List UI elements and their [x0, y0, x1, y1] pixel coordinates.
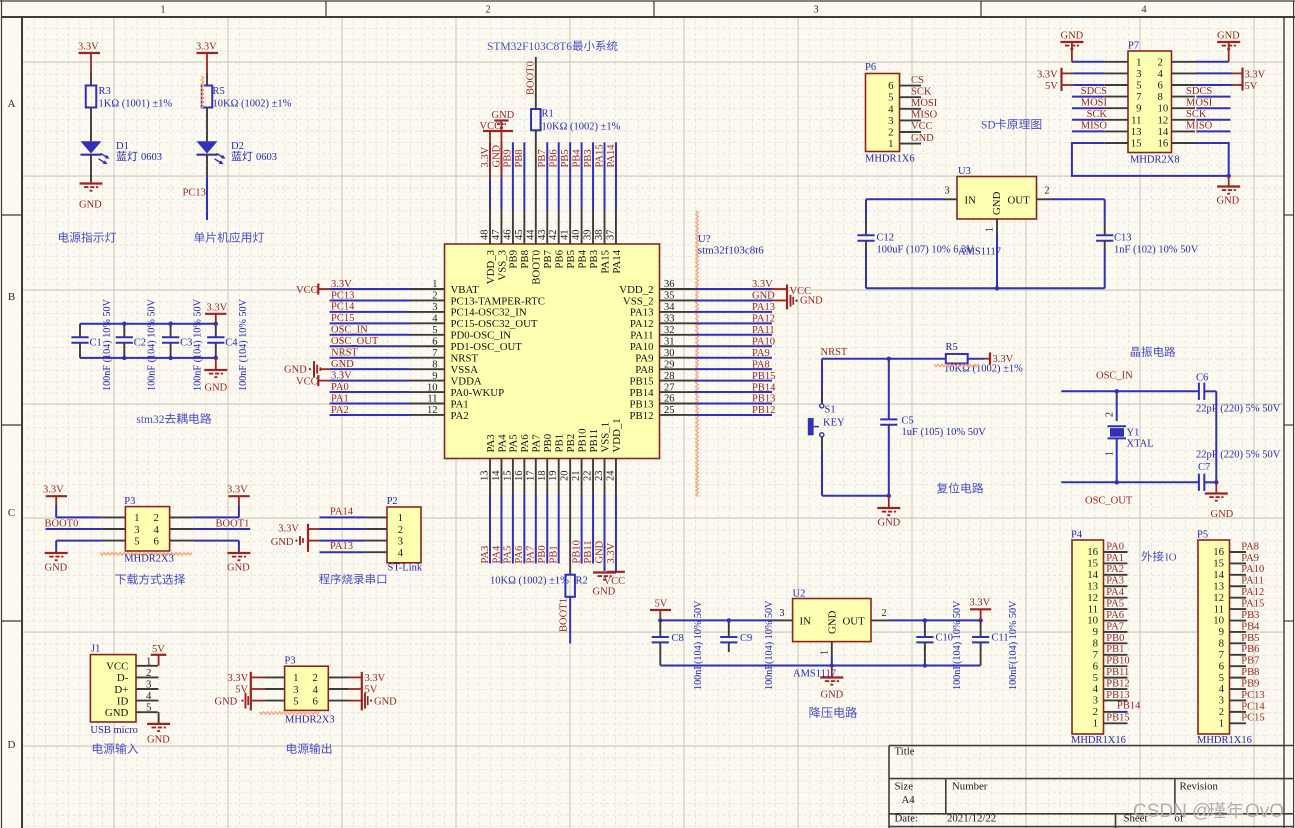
mcu top pin 37 PA14 [615, 210, 617, 245]
svg-text:PA13: PA13 [330, 541, 353, 552]
wire net MISO (right) [1196, 130, 1230, 132]
svg-text:OvO: OvO [1245, 801, 1284, 822]
svg-text:J1: J1 [91, 644, 100, 655]
capacitor C12 [865, 199, 867, 222]
svg-text:PB12: PB12 [752, 405, 775, 416]
svg-text:D: D [8, 739, 16, 751]
svg-text:VDD_3: VDD_3 [485, 250, 497, 284]
mcu right pin 31 PA10 [660, 345, 695, 347]
wire net 3.3V [330, 380, 410, 382]
mcu bottom pin 15 PA5 [512, 459, 514, 495]
wire net PA1 [330, 403, 410, 405]
svg-text:PA1: PA1 [1106, 553, 1124, 564]
mcu right pin 33 PA12 [660, 322, 695, 324]
svg-text:PB6: PB6 [1241, 644, 1259, 655]
svg-text:10KΩ (1002) ±1%: 10KΩ (1002) ±1% [542, 122, 621, 133]
svg-text:PB9: PB9 [503, 149, 514, 167]
junction [214, 322, 218, 326]
mcu bottom pin 23 VSS_1 [604, 459, 606, 495]
value label D2 [232, 151, 253, 161]
wire net PA11 [695, 334, 773, 336]
svg-text:R2: R2 [576, 576, 588, 587]
capacitor C10 [924, 620, 926, 636]
junction [995, 286, 999, 290]
wire [238, 506, 240, 517]
svg-text:XTAL: XTAL [1127, 439, 1154, 450]
svg-text:PA0: PA0 [331, 382, 349, 393]
mcu left pin 9 VDDA [410, 380, 445, 382]
svg-text:MOSI: MOSI [911, 98, 938, 109]
svg-text:CS: CS [911, 75, 924, 86]
svg-text:ID: ID [117, 695, 129, 707]
svg-text:1: 1 [432, 279, 437, 290]
wire [1116, 711, 1128, 713]
svg-text:5: 5 [1219, 672, 1224, 684]
wire net 3.3V [489, 142, 491, 209]
svg-text:2: 2 [485, 5, 490, 16]
svg-text:2: 2 [888, 127, 893, 139]
svg-text:GND: GND [821, 690, 844, 701]
regulator U2 AMS1117 [779, 619, 793, 621]
capacitor C13 [1104, 199, 1106, 222]
svg-text:PA8: PA8 [1241, 541, 1259, 552]
svg-text:GND: GND [205, 383, 228, 394]
svg-text:12: 12 [1158, 114, 1169, 126]
svg-text:GND: GND [594, 540, 605, 563]
wire net PC13 [330, 299, 410, 301]
svg-text:stm32f103c8t6: stm32f103c8t6 [698, 245, 764, 257]
svg-text:Number: Number [952, 781, 988, 793]
svg-text:PB14: PB14 [752, 382, 776, 393]
svg-text:PA14: PA14 [330, 506, 354, 517]
svg-text:9: 9 [1219, 626, 1224, 638]
ground GND (P7 pin2) [1217, 41, 1240, 43]
svg-text:30: 30 [664, 348, 675, 359]
svg-text:4: 4 [146, 690, 152, 702]
svg-text:GND: GND [45, 563, 68, 574]
power port VCC (pin 36) [772, 288, 787, 290]
wire net MOSI (right) [1196, 107, 1230, 109]
header P5 MHDR1X16 [1198, 540, 1230, 734]
svg-text:37: 37 [605, 230, 616, 241]
ground GND (crystal) [1215, 482, 1217, 492]
svg-text:1: 1 [1105, 451, 1116, 456]
svg-text:C7: C7 [1198, 462, 1210, 473]
svg-text:PA3: PA3 [1106, 576, 1124, 587]
svg-text:PB1: PB1 [554, 434, 566, 453]
LED D2 [197, 141, 218, 153]
wire [90, 108, 92, 142]
svg-text:OSC_IN: OSC_IN [331, 325, 368, 336]
svg-text:A4: A4 [902, 794, 916, 806]
svg-text:8: 8 [1219, 638, 1224, 650]
svg-text:VBAT: VBAT [451, 284, 480, 296]
svg-text:8: 8 [1093, 638, 1098, 650]
svg-text:4: 4 [1219, 683, 1225, 695]
svg-text:46: 46 [502, 229, 513, 240]
svg-text:C4: C4 [225, 338, 238, 349]
svg-text:1: 1 [1136, 56, 1141, 68]
header P3 MHDR2X3 (power out) [285, 666, 329, 710]
svg-text:C13: C13 [1114, 233, 1132, 244]
svg-text:C8: C8 [672, 633, 684, 644]
svg-text:GND: GND [800, 296, 823, 307]
svg-text:5: 5 [888, 92, 893, 104]
svg-text:VDD_1: VDD_1 [611, 418, 623, 452]
svg-text:7: 7 [432, 348, 437, 359]
svg-text:D+: D+ [114, 684, 128, 696]
svg-text:15: 15 [1131, 138, 1142, 150]
svg-text:PA0: PA0 [1106, 541, 1124, 552]
wire net PA3 [489, 495, 491, 564]
svg-text:stm32: stm32 [136, 414, 164, 426]
mcu bottom pin 22 PB11 [592, 459, 594, 495]
svg-text:3.3V: 3.3V [970, 598, 991, 609]
svg-text:C11: C11 [992, 633, 1009, 644]
wire net PA15 [604, 142, 606, 209]
svg-text:3.3V: 3.3V [1245, 70, 1266, 81]
ground GND (left) [55, 551, 57, 554]
svg-text:PA6: PA6 [1106, 610, 1124, 621]
svg-text:PA8: PA8 [752, 359, 770, 370]
svg-text:U2: U2 [793, 589, 806, 600]
svg-text:GND: GND [215, 696, 238, 707]
svg-text:MOSI: MOSI [1081, 97, 1108, 108]
svg-text:U3: U3 [958, 166, 971, 177]
svg-text:13: 13 [1131, 126, 1142, 138]
title block [889, 746, 1294, 828]
svg-text:3: 3 [432, 302, 437, 313]
svg-text:1: 1 [160, 5, 165, 16]
junction [978, 618, 982, 622]
svg-text:1nF (102) 10% 50V: 1nF (102) 10% 50V [1114, 245, 1199, 256]
wire net PA12 [695, 322, 773, 324]
wire net OSC_OUT [330, 345, 410, 347]
svg-text:41: 41 [560, 230, 571, 241]
mcu top pin 41 PB5 [569, 210, 571, 245]
svg-text:PA2: PA2 [331, 405, 349, 416]
orange error marker line [696, 211, 698, 497]
mcu bottom pin 13 PA3 [489, 459, 491, 495]
svg-text:D1: D1 [116, 141, 129, 152]
capacitor C7 [1198, 474, 1200, 491]
svg-text:100nF (104) 10% 50V: 100nF (104) 10% 50V [102, 298, 113, 391]
wire net PB13 [695, 403, 773, 405]
power port VCC (VDD_1 bottom) [615, 564, 617, 572]
junction [1115, 389, 1119, 393]
svg-text:R1: R1 [542, 109, 554, 120]
svg-text:PD1-OSC_OUT: PD1-OSC_OUT [451, 341, 523, 353]
svg-text:5: 5 [134, 535, 139, 547]
svg-text:16: 16 [1158, 138, 1169, 150]
svg-text:43: 43 [537, 230, 548, 241]
svg-text:R5: R5 [213, 86, 225, 97]
wire [55, 506, 57, 517]
svg-text:3: 3 [293, 684, 298, 696]
svg-text:14: 14 [491, 470, 502, 481]
svg-text:24: 24 [605, 470, 616, 481]
comment 晶振电路 [1131, 346, 1176, 357]
svg-text:1: 1 [293, 672, 298, 684]
mcu top pin 45 PB8 [523, 210, 525, 245]
wire pin2 to GND [1195, 61, 1229, 63]
svg-text:2: 2 [1158, 56, 1163, 68]
ground GND (C4) [215, 358, 217, 370]
svg-text:OUT: OUT [843, 616, 866, 628]
svg-text:MHDR1X16: MHDR1X16 [1071, 735, 1126, 746]
svg-text:GND: GND [331, 359, 354, 370]
svg-text:PC13: PC13 [1241, 690, 1264, 701]
svg-text:PB6: PB6 [554, 249, 566, 268]
junction [887, 357, 891, 361]
svg-text:GND: GND [105, 707, 129, 719]
svg-text:2: 2 [1045, 186, 1050, 197]
svg-text:3: 3 [1093, 695, 1098, 707]
svg-text:PA2: PA2 [451, 410, 469, 422]
compile squiggle R5 [201, 76, 203, 108]
svg-text:3.3V: 3.3V [278, 524, 299, 535]
svg-text:VCC: VCC [296, 285, 318, 296]
svg-text:VSS_1: VSS_1 [599, 422, 611, 453]
svg-text:3: 3 [888, 115, 893, 127]
svg-text:5: 5 [1093, 672, 1098, 684]
mcu bottom pin 14 PA4 [500, 459, 502, 495]
svg-text:PA14: PA14 [606, 144, 617, 168]
svg-text:PC14: PC14 [331, 302, 355, 313]
junction [168, 322, 172, 326]
wire [193, 540, 239, 542]
mcu right pin 32 PA11 [660, 334, 695, 336]
capacitor C1 [79, 324, 81, 337]
svg-text:2: 2 [1219, 706, 1224, 718]
svg-text:16: 16 [1087, 546, 1098, 558]
svg-text:IO: IO [1165, 552, 1177, 564]
svg-text:2: 2 [313, 672, 318, 684]
svg-text:3.3V: 3.3V [993, 354, 1014, 365]
svg-text:1: 1 [146, 655, 151, 667]
mcu left pin 6 PD1-OSC_OUT [410, 345, 445, 347]
svg-text:1: 1 [985, 227, 996, 232]
resistor R1 (BOOT0) [535, 57, 537, 109]
svg-text:MISO: MISO [1186, 121, 1213, 132]
svg-text:PA10: PA10 [630, 341, 654, 353]
wire [660, 619, 779, 621]
compile squiggle [100, 553, 192, 555]
svg-text:1: 1 [1219, 718, 1224, 730]
wire net PB10 [581, 495, 583, 564]
svg-text:10: 10 [1158, 103, 1169, 115]
svg-text:PA10: PA10 [1241, 564, 1264, 575]
svg-text:PA11: PA11 [630, 330, 653, 342]
svg-text:36: 36 [664, 279, 675, 290]
svg-text:17: 17 [525, 471, 536, 482]
wire net PB6 [558, 142, 560, 209]
svg-text:Revision: Revision [1180, 781, 1219, 793]
svg-text:32: 32 [664, 325, 675, 336]
comment 复位电路 [937, 483, 983, 494]
wire net PA14 [615, 142, 617, 209]
svg-text:PA12: PA12 [630, 318, 654, 330]
wire PA13 [320, 551, 366, 553]
mcu left pin 5 PD0-OSC_IN [410, 334, 445, 336]
mcu left pin 7 NRST [410, 357, 445, 359]
svg-text:P7: P7 [1128, 41, 1139, 52]
svg-text:OUT: OUT [1008, 195, 1031, 207]
svg-text:VSS_3: VSS_3 [496, 250, 508, 281]
svg-text:PB8: PB8 [514, 149, 525, 167]
mcu right pin 25 PB12 [660, 414, 695, 416]
svg-text:C1: C1 [90, 338, 102, 349]
ground GND (pin 8) [313, 361, 315, 377]
mcu bottom pin 20 PB2 [569, 459, 571, 495]
svg-text:PA5: PA5 [503, 546, 514, 564]
svg-text:SCK: SCK [911, 86, 932, 97]
svg-text:26: 26 [664, 394, 675, 405]
svg-text:SCK: SCK [1087, 109, 1108, 120]
svg-text:PB8: PB8 [1241, 667, 1259, 678]
svg-text:6: 6 [154, 535, 160, 547]
svg-text:MOSI: MOSI [1186, 97, 1213, 108]
svg-text:3.3V: 3.3V [331, 370, 352, 381]
svg-text:PB10: PB10 [576, 428, 588, 452]
svg-text:1: 1 [134, 512, 139, 524]
svg-text:3: 3 [813, 5, 818, 16]
svg-text:6: 6 [888, 80, 894, 92]
svg-text:IN: IN [800, 616, 812, 628]
svg-text:P3: P3 [124, 496, 135, 507]
svg-text:3.3V: 3.3V [606, 542, 617, 563]
svg-text:USB micro: USB micro [90, 725, 138, 736]
mcu right pin 27 PB14 [660, 391, 695, 393]
mcu left pin 3 PC14-OSC32_IN [410, 311, 445, 313]
svg-text:PA3: PA3 [485, 434, 497, 452]
svg-text:16: 16 [514, 471, 525, 482]
svg-text:2: 2 [1093, 706, 1098, 718]
svg-text:GND: GND [227, 563, 250, 574]
svg-text:BOOT0: BOOT0 [531, 250, 543, 285]
svg-text:PA1: PA1 [331, 393, 349, 404]
wire net PA5 [512, 495, 514, 564]
wire net SDCS (left) [1072, 96, 1105, 98]
comment 外接IO [1141, 551, 1163, 562]
svg-text:3.3V: 3.3V [227, 485, 248, 496]
wire net PC13 [206, 155, 208, 177]
svg-text:KEY: KEY [823, 418, 845, 429]
capacitor C2 [123, 324, 125, 337]
svg-text:PA11: PA11 [752, 325, 775, 336]
svg-text:10: 10 [1087, 615, 1098, 627]
svg-text:7: 7 [1219, 649, 1225, 661]
ground GND (D1) [90, 182, 92, 184]
svg-text:PA15: PA15 [594, 145, 605, 168]
resistor R5 [202, 86, 213, 108]
wire net NRST [330, 357, 410, 359]
regulator U3 pin 2 OUT wire [1037, 198, 1051, 200]
mcu top pin 42 PB6 [558, 210, 560, 245]
svg-text:GND: GND [374, 696, 397, 707]
svg-text:31: 31 [664, 336, 675, 347]
wire net PA0 [330, 391, 410, 393]
junction [923, 618, 927, 622]
svg-text:7: 7 [1093, 649, 1099, 661]
svg-text:PB15: PB15 [1106, 713, 1129, 724]
svg-text:PA12: PA12 [752, 314, 775, 325]
svg-text:BOOT0: BOOT0 [45, 518, 79, 529]
mcu left pin 4 PC15-OSC32_OUT [410, 322, 445, 324]
svg-text:P4: P4 [1071, 530, 1083, 541]
svg-text:PA9: PA9 [635, 353, 653, 365]
svg-text:PB1: PB1 [1106, 644, 1124, 655]
wire [90, 155, 92, 182]
header P4 MHDR1X16 [1072, 540, 1104, 734]
svg-text:PA4: PA4 [496, 434, 508, 453]
mcu bottom pin 21 PB10 [581, 459, 583, 495]
junction [887, 494, 891, 498]
wire net PC15 [330, 322, 410, 324]
wire BOOT0 [46, 528, 102, 530]
mcu bottom pin 24 VDD_1 [615, 459, 617, 495]
svg-text:3: 3 [945, 186, 950, 197]
wire net MISO (left) [1072, 130, 1105, 132]
svg-text:PA14: PA14 [611, 249, 623, 273]
svg-text:VDD_2: VDD_2 [619, 284, 653, 296]
svg-text:6: 6 [1219, 660, 1225, 672]
svg-text:100nF(104) 10% 50V: 100nF(104) 10% 50V [1008, 600, 1019, 690]
svg-text:STM32F103C8T6: STM32F103C8T6 [487, 41, 572, 53]
wire OSC_OUT [1061, 481, 1198, 483]
svg-text:PA2: PA2 [1106, 564, 1124, 575]
wire net PB1 [558, 495, 560, 564]
svg-text:1uF (105) 10% 50V: 1uF (105) 10% 50V [902, 427, 987, 438]
svg-text:PB15: PB15 [752, 371, 775, 382]
capacitor C4 [215, 324, 217, 337]
wire net SCK (left) [1072, 119, 1105, 121]
svg-text:10KΩ (1002) ±1%: 10KΩ (1002) ±1% [490, 576, 569, 587]
svg-text:PA9: PA9 [752, 348, 770, 359]
svg-text:C10: C10 [936, 633, 954, 644]
svg-text:CSDN @: CSDN @ [1133, 801, 1211, 822]
junction [727, 618, 731, 622]
wire net PB4 [581, 142, 583, 209]
regulator U2 pin 1 GND [831, 642, 833, 655]
svg-text:45: 45 [514, 230, 525, 241]
svg-text:PB10: PB10 [1106, 656, 1129, 667]
svg-text:1: 1 [820, 650, 831, 655]
svg-text:PC13: PC13 [331, 290, 354, 301]
wire net GND [604, 495, 606, 564]
svg-text:BOOT1: BOOT1 [559, 598, 570, 632]
svg-text:6: 6 [432, 336, 437, 347]
wire net 3.3V [330, 288, 410, 290]
capacitor C9 [728, 620, 730, 636]
svg-text:22pF (220) 5% 50V: 22pF (220) 5% 50V [1196, 404, 1281, 415]
svg-text:C6: C6 [1196, 373, 1208, 384]
svg-text:9: 9 [432, 371, 437, 382]
svg-text:14: 14 [1087, 569, 1098, 581]
power port 3.3V (reset) [968, 358, 984, 360]
svg-text:PB14: PB14 [629, 387, 654, 399]
ground GND (P3 out right) [364, 693, 366, 709]
svg-text:5: 5 [293, 695, 298, 707]
mcu top pin 47 VSS_3 [500, 210, 502, 245]
svg-text:13: 13 [1087, 580, 1098, 592]
capacitor C5 [888, 359, 890, 419]
svg-text:GND: GND [1217, 31, 1240, 42]
regulator U3 pin 3 wire [944, 198, 958, 200]
svg-text:5V: 5V [655, 599, 668, 610]
svg-text:PA3: PA3 [480, 546, 491, 564]
wire net PA7 [535, 495, 537, 564]
